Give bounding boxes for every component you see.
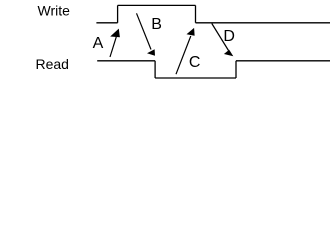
- wire Write falling edge: [195, 5, 197, 22]
- arrow C: [176, 28, 195, 74]
- wire Read falling edge: [154, 61, 156, 78]
- arrow D: [212, 24, 234, 57]
- wire Read rising edge: [235, 61, 237, 78]
- wire Write rising edge: [117, 5, 119, 22]
- svg-text:D: D: [223, 28, 235, 45]
- wire Write high segment: [118, 4, 196, 6]
- svg-text:C: C: [189, 54, 201, 71]
- svg-text:Write: Write: [38, 2, 71, 18]
- wire Write low segment 1: [96, 22, 117, 24]
- arrow B: [137, 13, 156, 56]
- wire Read high segment 2: [236, 60, 330, 62]
- svg-text:Read: Read: [36, 56, 69, 72]
- arrow A: [110, 29, 120, 57]
- wire Write low segment 2: [196, 22, 331, 24]
- svg-text:A: A: [93, 35, 104, 52]
- svg-text:B: B: [151, 16, 162, 33]
- wire Read high segment 1: [97, 60, 155, 62]
- wire Read low segment: [155, 77, 236, 79]
